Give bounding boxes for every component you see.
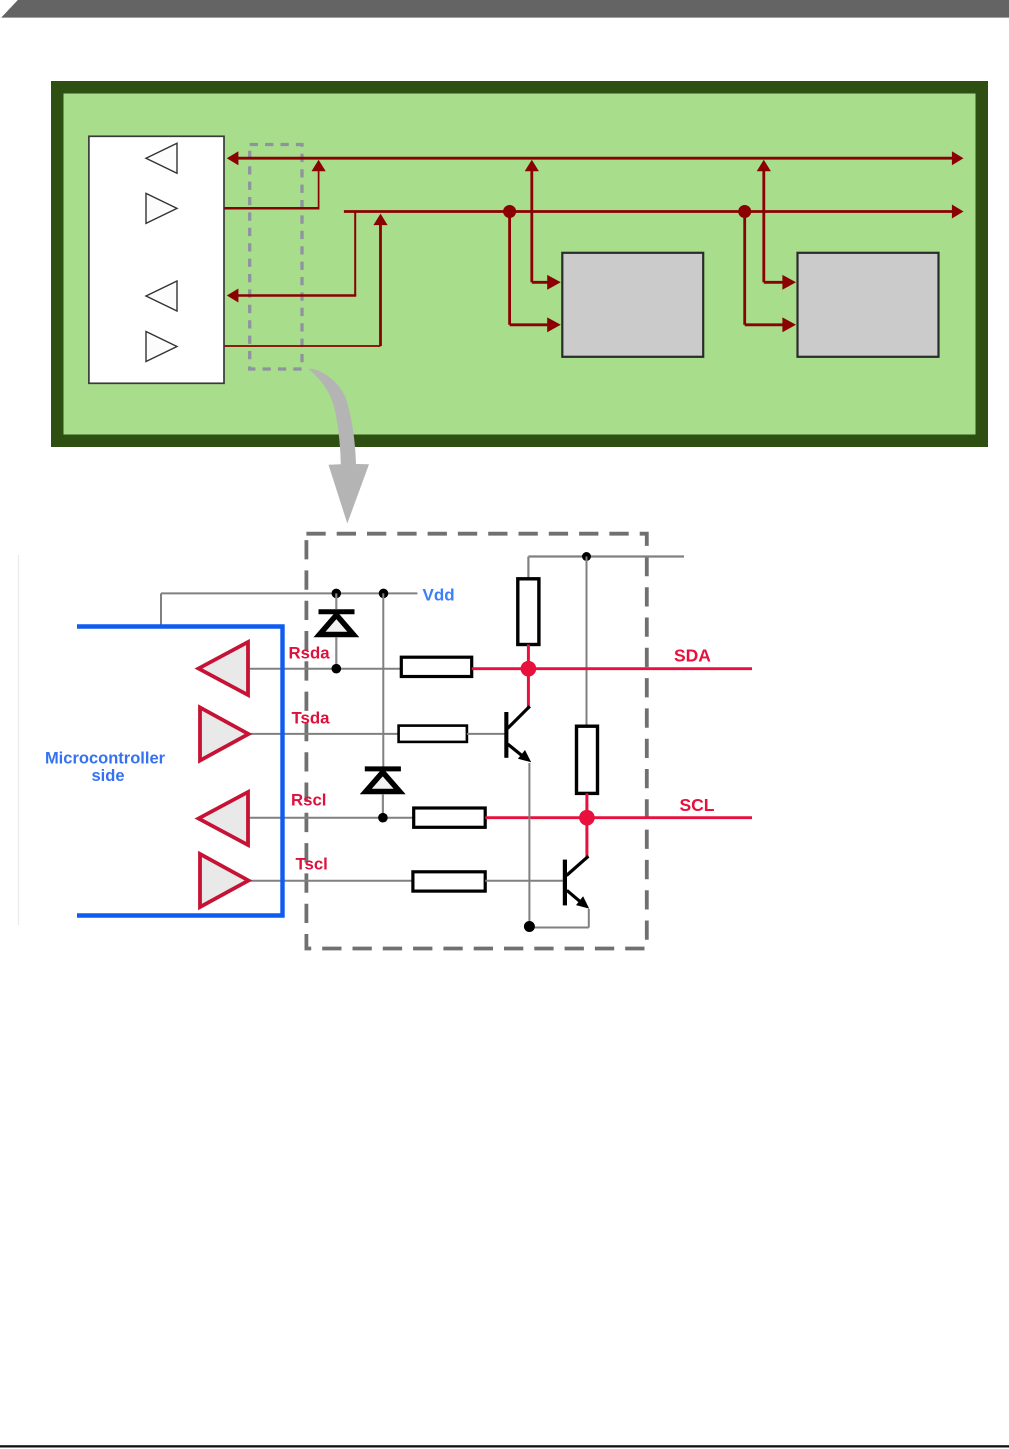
node on Vdd rail at D1 (332, 589, 342, 599)
svg-text:SCL: SCL (680, 795, 715, 815)
resistor R5 (SDA pull-up) (518, 579, 539, 645)
svg-text:Vdd: Vdd (423, 585, 455, 604)
buffer Tscl triangle (200, 854, 249, 907)
wire D2 branch vertical (382, 593, 384, 769)
node Rsda/D1 (332, 664, 342, 674)
node on top rail (582, 552, 591, 561)
resistor R1 (Rsda series) (401, 657, 471, 676)
microcontroller side bracket (77, 627, 283, 916)
wire R2 to Q1 base (467, 733, 506, 735)
master/microcontroller block (89, 136, 224, 383)
wire Q1 emitter to common (528, 763, 530, 928)
junction node slave1 on SCL bus (503, 205, 516, 218)
SCL bus wire (344, 205, 964, 219)
figure left edge line (18, 555, 20, 925)
buffer Rscl (block diagram) (146, 281, 177, 311)
wire SDA node to Q1 collector (527, 669, 530, 707)
resistor R4 (Tscl series) (413, 872, 485, 891)
schematic dashed boundary box (306, 534, 646, 949)
buffer Tsda (block diagram) (146, 193, 177, 223)
resistor R6 (SCL pull-up) (577, 726, 598, 793)
slave 2 box (798, 253, 939, 357)
transistor Q1 (504, 706, 531, 762)
wire slave1 to SDA bus (525, 160, 561, 290)
svg-text:side: side (91, 767, 124, 785)
slave 1 box (562, 253, 703, 357)
SDA line (472, 667, 752, 670)
wire Tsda to SDA bus (225, 160, 326, 210)
wire Rscl (248, 817, 414, 819)
I2C system block diagram green panel (51, 81, 988, 447)
SDA bus wire (227, 151, 964, 165)
wire Tscl to SCL bus (225, 214, 388, 346)
footer rule (0, 1445, 1009, 1447)
node SCL junction (579, 810, 595, 826)
node on Vdd rail at D2 branch (379, 589, 389, 599)
wire Vdd rail (161, 593, 417, 626)
resistor R2 (Tsda series) (399, 726, 467, 742)
svg-text:Tscl: Tscl (296, 855, 328, 874)
svg-text:Tsda: Tsda (292, 709, 331, 728)
resistor R3 (Rscl series) (414, 808, 486, 827)
node SDA junction (521, 661, 537, 677)
buffer Tsda triangle (200, 708, 249, 761)
diode D2 (365, 769, 401, 817)
svg-text:SDA: SDA (674, 646, 711, 666)
wire slave2 to SDA bus (757, 160, 796, 290)
junction node slave2 on SCL bus (738, 205, 751, 218)
wire Rsda (248, 668, 401, 670)
wire Q2 emitter to common node (529, 909, 588, 928)
label Microcontroller side (45, 750, 166, 786)
buffer Rsda triangle (199, 642, 249, 695)
buffer Rsda (block diagram) (146, 143, 177, 173)
wire slave1 to SCL bus (510, 212, 561, 333)
buffer Tscl (block diagram) (146, 332, 177, 362)
node Rscl/D2 (378, 813, 388, 823)
svg-text:Microcontroller: Microcontroller (45, 750, 166, 768)
zoom callout arrow (308, 369, 369, 524)
dashed zoom region box (250, 145, 302, 370)
diode D1 (319, 593, 355, 668)
common emitter node (524, 921, 535, 932)
wire R6 to SCL node (585, 793, 588, 817)
buffer Rscl triangle (199, 792, 249, 845)
wire top rail to R6 (586, 557, 588, 727)
header bar (1, 0, 1009, 18)
wire SCL node to Q2 collector (585, 818, 588, 857)
wire Tsda (248, 733, 398, 735)
svg-text:Rscl: Rscl (291, 791, 326, 810)
SCL line (485, 816, 752, 819)
wire Tscl (248, 880, 413, 882)
svg-text:Rsda: Rsda (289, 644, 331, 663)
wire slave2 to SCL bus (745, 212, 796, 333)
wire R5 to SDA node (527, 645, 530, 669)
wire top supply rail (528, 557, 684, 579)
transistor Q2 (563, 856, 589, 908)
wire SCL bus to Rscl (227, 212, 356, 303)
wire R4 to Q2 base (485, 880, 563, 882)
